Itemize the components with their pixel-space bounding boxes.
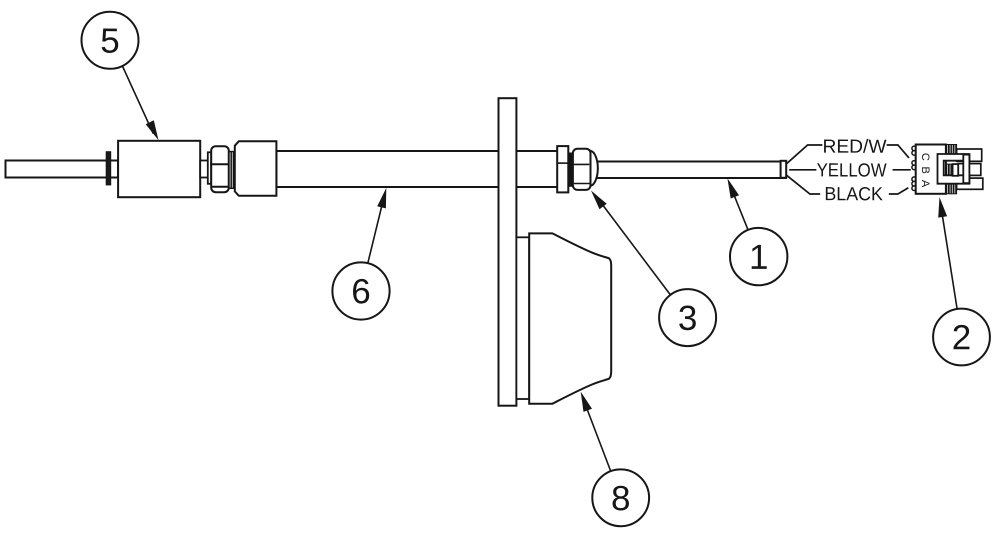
cable 1 (wire lead) bbox=[596, 162, 786, 179]
connector 2: hatched band bottom bbox=[946, 184, 957, 194]
sensor body block 5 bbox=[118, 141, 200, 197]
arrowhead 1 bbox=[727, 178, 739, 198]
callout circle 3 bbox=[659, 289, 716, 346]
svg-text:6: 6 bbox=[351, 272, 371, 311]
connector 2: pin A (top) bbox=[957, 149, 982, 161]
arrowhead 5 bbox=[146, 120, 159, 140]
hex nut (left fitting) bbox=[211, 146, 229, 192]
wire link RED/W to connector bbox=[888, 145, 909, 157]
svg-text:BLACK: BLACK bbox=[824, 184, 883, 205]
wire fan line to BLACK bbox=[787, 175, 820, 194]
connector 2: latch bracket bbox=[938, 154, 970, 184]
svg-text:RED/W: RED/W bbox=[822, 137, 886, 158]
tube 6 (sheath tube) bbox=[276, 151, 557, 187]
wire fan line to YELLOW bbox=[790, 169, 816, 171]
connector 2: body bbox=[916, 145, 946, 194]
svg-text:5: 5 bbox=[100, 22, 120, 61]
cable gland 3: dome cap bbox=[591, 151, 598, 186]
svg-text:1: 1 bbox=[749, 238, 769, 277]
svg-text:C: C bbox=[919, 153, 931, 161]
leader line for callout 8 bbox=[586, 405, 611, 471]
callout circle 6 bbox=[332, 262, 389, 319]
leader line for callout 5 bbox=[122, 66, 153, 133]
wire link BLACK to connector bbox=[890, 188, 908, 194]
washer at hex nut bbox=[208, 152, 211, 184]
stub between block 5 and nut bbox=[200, 161, 208, 178]
callout circle 5 bbox=[82, 12, 139, 69]
cable gland 3: nut facet lines bbox=[573, 164, 590, 183]
leader line for callout 6 bbox=[368, 201, 383, 263]
housing 8 (bell body) bbox=[529, 233, 611, 403]
wire fan line to RED/W bbox=[787, 145, 822, 164]
cable end cap bbox=[781, 161, 787, 178]
connector 2: pin C (bottom) bbox=[957, 178, 983, 189]
callout circle 8 bbox=[592, 469, 649, 526]
cable gland 3: hex nut bbox=[573, 149, 591, 190]
svg-text:2: 2 bbox=[952, 318, 972, 357]
svg-text:A: A bbox=[919, 180, 931, 188]
svg-text:B: B bbox=[919, 167, 931, 174]
wire link YELLOW to connector bbox=[893, 169, 910, 171]
svg-text:YELLOW: YELLOW bbox=[817, 160, 887, 181]
connector 2: pin B (middle) bbox=[958, 164, 981, 176]
leader line for callout 3 bbox=[599, 200, 670, 295]
cable gland 3: flange bbox=[557, 146, 568, 192]
svg-text:3: 3 bbox=[678, 299, 698, 338]
arrowhead 3 bbox=[591, 191, 607, 210]
callout circle 2 bbox=[933, 309, 990, 366]
leader line for callout 2 bbox=[942, 210, 958, 309]
cable gland 3: dark thread band bbox=[568, 153, 573, 186]
cable gland 3: flange facet line bbox=[557, 162, 568, 164]
connector 2: crimp bumps bbox=[912, 146, 917, 190]
connector 2: hatched band middle bbox=[946, 164, 957, 176]
connector 2: latch window bbox=[953, 164, 959, 176]
arrowhead 6 bbox=[377, 188, 386, 209]
arrowhead 8 bbox=[581, 392, 592, 412]
hex nut facet lines bbox=[211, 164, 229, 187]
mounting plate bbox=[499, 98, 517, 406]
connector 2: latch right bar bbox=[963, 155, 969, 184]
svg-text:8: 8 bbox=[611, 479, 631, 518]
threaded section (left fitting) bbox=[229, 152, 235, 189]
leader line for callout 1 bbox=[732, 190, 748, 230]
arrowhead 2 bbox=[938, 197, 947, 218]
callout circle 1 bbox=[730, 228, 787, 285]
connector 2: hatched band top bbox=[946, 145, 957, 155]
housing hub strip bbox=[516, 237, 529, 399]
bushing block (chamfered) bbox=[235, 141, 277, 196]
probe rod (left tip) bbox=[6, 161, 119, 178]
flange washer on probe rod bbox=[106, 152, 110, 185]
